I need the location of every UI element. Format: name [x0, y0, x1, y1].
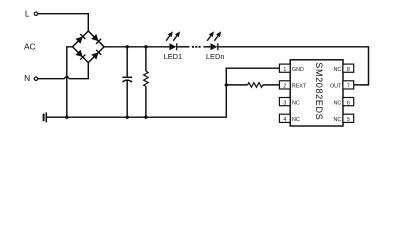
pin 2 box: [279, 81, 290, 89]
resistor R2 (REXT): [226, 83, 279, 88]
pin 6 box: [343, 98, 354, 106]
svg-text:OUT: OUT: [330, 84, 342, 90]
wire: LED1 to dashed break: [177, 46, 189, 48]
node: resistor bottom junction: [144, 116, 147, 119]
svg-text:NC: NC: [292, 100, 300, 106]
terminal L: [34, 12, 37, 15]
wire: L terminal to bridge top vertex: [38, 14, 88, 31]
svg-text:4: 4: [283, 117, 286, 123]
pin 8 box: [343, 64, 354, 72]
pin 7 box: [343, 81, 354, 89]
bridge diode D4 (lower-right, cathode at right vertex): [91, 50, 101, 60]
svg-text:LEDn: LEDn: [206, 52, 225, 61]
node: capacitor top junction: [126, 45, 129, 48]
wire: ground rail from ground symbol to IC pin1 (GND): [46, 68, 279, 117]
ground symbol: [44, 112, 47, 122]
svg-text:GND: GND: [292, 67, 304, 73]
svg-text:N: N: [24, 73, 30, 83]
wire: DC+ rail from bridge right vertex to LED1: [104, 46, 169, 48]
bridge rectifier diamond wire: [73, 31, 105, 63]
resistor R1 (bleeder, across DC bus): [144, 47, 149, 117]
svg-text:2: 2: [283, 84, 286, 90]
node: resistor top junction: [144, 45, 147, 48]
node: DC- junction on ground rail: [65, 116, 68, 119]
svg-text:NC: NC: [334, 67, 342, 73]
node: REXT junction: [225, 83, 228, 86]
svg-text:L: L: [25, 9, 30, 19]
wire: bridge left vertex (DC-) down to ground rail: [67, 47, 73, 117]
bridge diode D1 (upper-left, anode at left vertex): [75, 34, 85, 44]
wire: LEDn to IC OUT pin 7: [218, 47, 368, 85]
pin 1 box: [279, 64, 290, 72]
svg-text:AC: AC: [24, 41, 36, 51]
pin 5 box: [343, 114, 354, 122]
bridge diode D3 (lower-left, cathode at bottom vertex): [75, 50, 85, 60]
wire: dashed continuation of LED string: [192, 46, 201, 48]
terminal N: [34, 77, 37, 80]
svg-text:SM2082EDS: SM2082EDS: [314, 62, 324, 120]
svg-text:NC: NC: [292, 117, 300, 123]
bridge diode D2 (upper-right, cathode at right vertex): [91, 34, 101, 44]
wire: N terminal to bridge bottom vertex with hop over DC- wire: [38, 63, 88, 79]
svg-text:8: 8: [347, 67, 350, 73]
svg-text:6: 6: [347, 100, 350, 106]
pin 3 box: [279, 98, 290, 106]
capacitor C1 (polarized, across DC bus): [122, 47, 132, 117]
wire: dashed break to LEDn: [203, 46, 210, 48]
svg-text:NC: NC: [334, 117, 342, 123]
svg-text:REXT: REXT: [292, 84, 307, 90]
op IC U1 SM2082EDS body: [290, 60, 343, 126]
LED LED1: [164, 30, 182, 50]
pin 4 box: [279, 114, 290, 122]
svg-text:5: 5: [347, 117, 350, 123]
svg-text:3: 3: [283, 100, 286, 106]
LED LEDn: [205, 30, 223, 50]
svg-text:1: 1: [283, 67, 286, 73]
svg-text:NC: NC: [334, 100, 342, 106]
svg-text:7: 7: [347, 84, 350, 90]
node: capacitor bottom junction: [126, 116, 129, 119]
svg-text:LED1: LED1: [164, 52, 183, 61]
